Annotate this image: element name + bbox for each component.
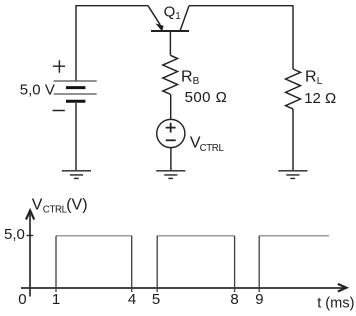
wire top rail left [75, 5, 148, 7]
svg-text:4: 4 [128, 291, 136, 308]
svg-text:9: 9 [255, 291, 263, 308]
wire top rail right [189, 5, 293, 7]
battery plus sign [53, 60, 65, 72]
wire RB to VCTRL [170, 94, 172, 119]
transistor Q1 base bar [151, 30, 189, 32]
wire battery top [75, 6, 77, 81]
transistor Q1 emitter arrow [155, 23, 163, 31]
ground middle [156, 171, 185, 179]
waveform pulse2 top [157, 235, 234, 237]
svg-text:5: 5 [152, 291, 160, 308]
waveform pulse1 rising edge [55, 236, 57, 292]
svg-text:5,0 V: 5,0 V [20, 81, 55, 98]
source VCTRL circle [157, 119, 185, 147]
svg-text:5,0: 5,0 [4, 226, 25, 243]
svg-text:Q: Q [164, 3, 176, 20]
svg-text:1: 1 [175, 11, 181, 22]
battery B1 plate short bottom [66, 100, 85, 103]
svg-text:1: 1 [52, 291, 60, 308]
source VCTRL minus [166, 139, 176, 141]
svg-text:V: V [32, 196, 43, 213]
resistor RL [286, 69, 301, 109]
svg-text:500 Ω: 500 Ω [185, 89, 228, 106]
wire base to RB [169, 31, 171, 55]
transistor Q1 emitter [148, 6, 160, 25]
resistor RB [163, 55, 178, 94]
wire RL bottom [292, 109, 294, 170]
svg-text:R: R [305, 68, 317, 85]
svg-text:8: 8 [230, 291, 238, 308]
svg-text:0: 0 [18, 291, 26, 308]
wire VCTRL to ground [170, 148, 172, 170]
graph 5,0 tick [27, 235, 34, 237]
graph y-axis arrowhead [26, 210, 34, 219]
waveform pulse1 falling edge [131, 236, 133, 292]
battery minus sign [53, 110, 65, 112]
ground right [278, 171, 307, 179]
graph x-axis arrowhead [338, 284, 347, 292]
svg-text:B: B [193, 76, 200, 87]
wire RL top [292, 6, 294, 69]
ground left [62, 171, 91, 179]
svg-text:(V): (V) [66, 196, 87, 213]
battery B1 plate long top [54, 80, 97, 82]
battery B1 plate long bottom [54, 93, 97, 95]
waveform pulse2 falling edge [234, 236, 236, 292]
graph y-axis [29, 212, 31, 297]
graph x-axis [21, 287, 345, 289]
svg-text:R: R [181, 68, 193, 85]
svg-text:CTRL: CTRL [200, 143, 225, 154]
waveform pulse1 top [56, 235, 132, 237]
waveform pulse2 rising edge [156, 236, 158, 292]
svg-text:t (ms): t (ms) [317, 296, 354, 312]
source VCTRL plus [166, 123, 176, 133]
svg-text:L: L [317, 76, 323, 87]
waveform pulse3 rising edge [258, 236, 260, 292]
transistor Q1 collector [180, 6, 189, 31]
svg-text:12 Ω: 12 Ω [304, 90, 336, 107]
svg-text:CTRL: CTRL [43, 205, 68, 216]
waveform pulse3 top [259, 235, 329, 237]
battery B1 plate short top [66, 86, 85, 89]
wire battery bottom [75, 103, 77, 170]
